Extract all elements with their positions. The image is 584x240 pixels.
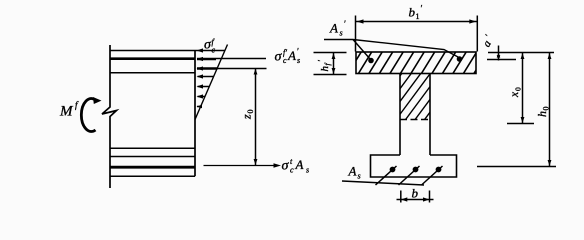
top flange (hatched) <box>356 52 476 74</box>
wire: beam right edge <box>194 51 196 177</box>
svg-text:A: A <box>329 21 338 36</box>
label a' (rotated) <box>479 32 497 49</box>
svg-text:b: b <box>409 5 416 20</box>
svg-text:M: M <box>59 103 74 119</box>
svg-text:s: s <box>306 166 309 175</box>
x0 dimension <box>522 53 524 124</box>
stress arrow row y68 (thick dash) <box>197 67 218 69</box>
label sigma_c^t A_s <box>282 157 310 175</box>
svg-text:b: b <box>412 185 419 200</box>
flange hatching <box>347 51 488 75</box>
neutral axis dashed line <box>400 119 430 121</box>
svg-text:h: h <box>535 111 549 117</box>
svg-text:0: 0 <box>513 87 522 91</box>
label h_f' (rotated) <box>316 60 333 72</box>
label b1' <box>409 4 424 22</box>
rebar slashes <box>376 166 397 185</box>
svg-text:′: ′ <box>420 4 423 14</box>
wire: bottom group line 2 <box>110 156 195 158</box>
stress triangle diagonal <box>195 45 228 120</box>
moment arc M^f <box>81 99 95 132</box>
svg-text:′: ′ <box>344 19 347 29</box>
stress arrow row y96 <box>198 96 206 98</box>
svg-text:c: c <box>290 166 294 175</box>
tension rebar dots <box>390 167 396 173</box>
svg-text:a: a <box>481 38 494 49</box>
label x0 (rotated) <box>509 87 523 98</box>
h0 dimension <box>549 53 551 167</box>
svg-text:s: s <box>297 56 300 65</box>
svg-text:0: 0 <box>541 107 550 111</box>
label b <box>412 185 419 200</box>
svg-text:s: s <box>358 172 361 181</box>
label sigma_c^f <box>204 37 216 54</box>
label M^f <box>59 100 79 120</box>
label z0 (rotated) <box>240 110 256 121</box>
svg-text:′: ′ <box>316 60 326 62</box>
svg-text:A: A <box>348 164 357 179</box>
arrowhead of moment arc <box>93 97 102 104</box>
tension force arrow <box>204 165 277 167</box>
label A_s' with leaders <box>329 19 347 38</box>
label A_s <box>348 164 361 181</box>
svg-text:1: 1 <box>416 12 420 21</box>
wire: beam top edge / stress top line <box>110 50 225 52</box>
svg-text:′: ′ <box>297 46 300 56</box>
wire to sigma'A' label <box>216 58 266 60</box>
h_f' dimension <box>314 52 347 54</box>
wire: tension rebar line (thick) <box>110 166 195 169</box>
node: arrowhead top stress arrow <box>197 48 204 52</box>
A_s leader line <box>342 181 424 185</box>
label sigma'_c^f A'_s <box>275 46 301 65</box>
compression rebar dot left <box>368 58 374 64</box>
wire: bottom group line 1 <box>110 147 195 149</box>
svg-text:s: s <box>340 29 343 38</box>
svg-text:0: 0 <box>246 110 255 114</box>
svg-text:′: ′ <box>483 32 493 40</box>
svg-text:A: A <box>295 157 304 172</box>
svg-text:A: A <box>287 48 296 63</box>
compression rebar dot right <box>457 56 463 62</box>
stress arrow row y106 <box>197 106 201 108</box>
b1' dimension <box>356 21 479 23</box>
a' dimension <box>488 52 554 54</box>
stress arrow row y59 (thick dash) <box>197 58 216 60</box>
svg-text:t: t <box>290 157 293 166</box>
z0 dimension line <box>255 69 257 166</box>
bottom flange outline <box>371 155 457 177</box>
svg-text:c: c <box>283 56 287 65</box>
svg-text:σ: σ <box>282 158 290 173</box>
web hatch above neutral axis <box>367 73 460 121</box>
svg-text:x: x <box>509 91 521 98</box>
svg-text:z: z <box>240 114 254 120</box>
wire: compression rebar line (thick) <box>110 57 195 60</box>
stress arrow row y76 <box>198 76 214 78</box>
svg-text:σ: σ <box>275 50 283 65</box>
svg-text:c: c <box>212 45 216 54</box>
svg-text:f: f <box>75 100 79 110</box>
b dimension <box>397 199 434 201</box>
wire to z0 dimension <box>218 68 267 70</box>
wire: flange soffit line <box>110 72 195 74</box>
label h0 (rotated) <box>535 107 551 118</box>
wire: beam bottom edge <box>110 175 195 177</box>
web outline <box>399 74 401 156</box>
stress arrow row y86 <box>198 86 210 88</box>
wire: beam left edge with break <box>102 45 117 188</box>
